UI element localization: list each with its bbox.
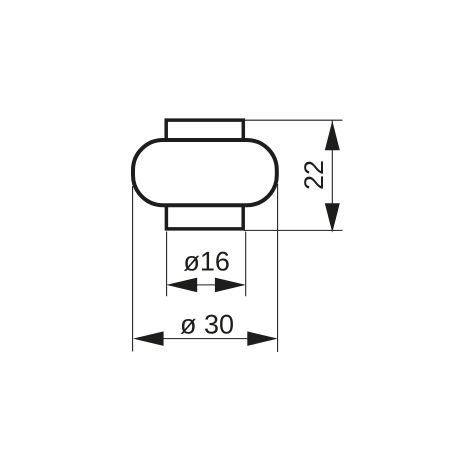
svg-text:ø16: ø16: [183, 247, 230, 277]
svg-text:ø 30: ø 30: [180, 310, 234, 340]
svg-text:22: 22: [299, 160, 329, 190]
